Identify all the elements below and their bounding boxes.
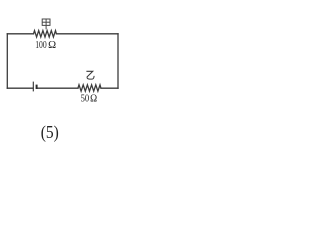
- label 甲 (drawn glyph): [42, 19, 50, 29]
- wire right vertical: [117, 34, 119, 88]
- svg-text:50: 50: [81, 93, 90, 105]
- svg-text:100: 100: [35, 39, 47, 51]
- wire battery to resistor 乙: [38, 87, 78, 89]
- label 乙 (drawn glyph): [86, 71, 94, 79]
- svg-text:Ω: Ω: [90, 93, 97, 105]
- wire bottom-left segment: [7, 87, 33, 89]
- wire left vertical: [6, 34, 8, 88]
- svg-text:(5): (5): [41, 122, 59, 142]
- battery cell E: [33, 82, 36, 92]
- wire bottom-right segment: [101, 87, 118, 89]
- figure caption (5): [41, 122, 59, 142]
- resistor 甲 (zigzag): [34, 31, 57, 37]
- wire top-left segment: [7, 33, 33, 35]
- resistor 乙 (zigzag): [78, 85, 101, 91]
- wire top-right segment: [57, 33, 119, 35]
- svg-text:Ω: Ω: [48, 39, 56, 51]
